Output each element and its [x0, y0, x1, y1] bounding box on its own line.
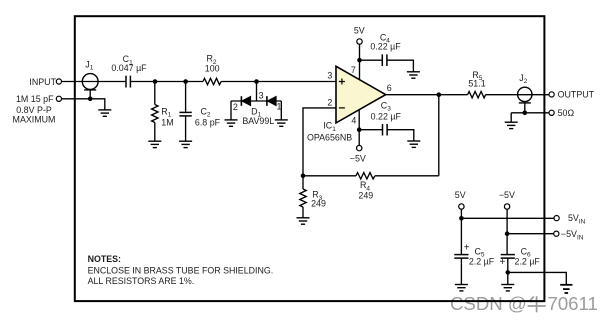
wire: node to D1 center [256, 82, 258, 102]
svg-text:5V: 5V [455, 190, 466, 200]
svg-text:OPA656NB: OPA656NB [307, 132, 352, 142]
node: 5V rail [459, 216, 464, 221]
resistor R4 249 (horizontal) [356, 173, 375, 179]
svg-text:51.1: 51.1 [468, 78, 485, 88]
wire: J1 shield stem [89, 90, 91, 99]
connector J1 [82, 74, 98, 90]
ground (R3) [297, 218, 310, 224]
op-amp - symbol [339, 107, 345, 109]
svg-text:3: 3 [259, 91, 264, 101]
wire: C3 to ground [387, 130, 414, 141]
wire: pin 2 from op-amp to inverting node [303, 108, 336, 176]
svg-text:ALL RESISTORS ARE 1%.: ALL RESISTORS ARE 1%. [88, 276, 195, 286]
svg-text:0.22 µF: 0.22 µF [371, 112, 402, 122]
resistor R3 249 (vertical) [302, 176, 304, 189]
svg-text:5V: 5V [354, 25, 365, 35]
ground (C4) [407, 72, 420, 78]
node: pin7/C4 [357, 58, 362, 63]
wire: pin 4 to -5V terminal [358, 109, 360, 145]
terminal 5V (supply input) [459, 204, 464, 209]
terminal 1M 15 pF [56, 96, 61, 101]
op-amp + symbol [339, 79, 345, 85]
wire: input shield line (1M 15pF terminal to ground) [62, 99, 105, 110]
terminal 50ohm [549, 110, 554, 115]
svg-text:+: + [499, 257, 505, 268]
watermark CSDN @牛70611 [450, 293, 598, 314]
node: pin4/C3 [357, 127, 362, 132]
svg-text:INPUT: INPUT [29, 77, 56, 87]
wire: 5V node to 5VIN terminal [461, 217, 554, 219]
svg-text:4: 4 [351, 116, 356, 126]
node: J1 shield junction [88, 97, 93, 102]
wire: J2 shield line to 50ohm terminal [511, 112, 549, 114]
svg-text:0.22 µF: 0.22 µF [370, 42, 401, 52]
ground (C2) [179, 141, 192, 147]
wire: D1 pin1 to ground [280, 101, 282, 120]
capacitor C1 0.047uF [126, 76, 130, 88]
svg-text:MAXIMUM: MAXIMUM [13, 114, 56, 124]
capacitor C4 0.22uF [382, 54, 387, 66]
ground (R1) [148, 141, 161, 147]
svg-text:−5V: −5V [499, 190, 515, 200]
terminal -5V (supply input) [504, 204, 509, 209]
node: J2 shield [523, 111, 528, 116]
node: C2 tap [183, 79, 188, 84]
capacitor C3 0.22uF [383, 124, 388, 136]
svg-text:BAV99L: BAV99L [242, 116, 274, 126]
ground (J2 shield) [505, 122, 518, 128]
enclosure box (brass tube boundary) [75, 16, 545, 301]
ground (C5) [455, 285, 468, 291]
wire: C1 to op-amp pin 3 [130, 81, 203, 83]
terminal -5VIN [554, 231, 559, 236]
svg-text:1M 15 pF: 1M 15 pF [16, 94, 54, 104]
svg-text:0.047 µF: 0.047 µF [111, 63, 147, 73]
ground (C3) [407, 141, 420, 147]
svg-text:249: 249 [358, 190, 373, 200]
node: D1 tap [254, 79, 259, 84]
svg-text:2: 2 [233, 102, 238, 112]
svg-text:OUTPUT: OUTPUT [558, 90, 595, 100]
terminal OUTPUT [549, 92, 554, 97]
wire: pin 7 to 5V terminal [359, 44, 361, 80]
node: C6 bottom [506, 270, 511, 275]
svg-text:249: 249 [311, 199, 326, 209]
terminal -5V (op-amp supply) [357, 145, 362, 150]
svg-text:2: 2 [327, 98, 332, 108]
wire: C4 to ground [387, 60, 414, 72]
svg-text:50Ω: 50Ω [558, 108, 575, 118]
diode D1a (cathode bar left) [240, 96, 242, 106]
notes block [88, 254, 274, 286]
ground (input shield) [98, 110, 111, 116]
wire: op-amp output pin 6 to R5 [386, 94, 468, 96]
node: -5V rail [505, 231, 510, 236]
wire: pin 4 node to C3 [359, 129, 382, 131]
op-amp U1 OPA656NB triangle [336, 66, 386, 123]
svg-text:2.2 µF: 2.2 µF [515, 256, 541, 266]
wire: pin 7 node to C4 [360, 59, 383, 61]
wire: R5 to J2 and OUTPUT terminal [486, 94, 549, 96]
diode D1b (cathode bar left) [266, 96, 268, 106]
ground (C6) [501, 285, 514, 291]
svg-text:2.2 µF: 2.2 µF [469, 256, 495, 266]
resistor R5 51.1 (horizontal) [468, 92, 486, 98]
svg-text:CSDN @: CSDN @ [450, 293, 527, 314]
ground (external, right of box) [560, 285, 572, 293]
resistor R2 100 (horizontal) [203, 78, 221, 84]
wire: INPUT terminal to C1 (main signal line, passes through J1) [62, 81, 127, 83]
wire: D1 branch horizontal [231, 100, 281, 102]
svg-text:ENCLOSE IN BRASS TUBE FOR SHIE: ENCLOSE IN BRASS TUBE FOR SHIELDING. [88, 265, 274, 275]
capacitor C2 6.8pF (vertical) [185, 82, 187, 113]
connector J2 [518, 87, 532, 101]
terminal 5V (op-amp supply) [357, 39, 362, 44]
svg-text:100: 100 [205, 63, 220, 73]
wire: C6 node to external ground [508, 272, 567, 284]
wire: 5V terminal down to C5 [460, 209, 462, 254]
terminal 5VIN [554, 216, 559, 221]
ground (D1 pin1) [275, 120, 288, 126]
svg-text:70611: 70611 [548, 293, 598, 314]
wire: feedback horizontal to R4 [375, 175, 439, 177]
svg-text:NOTES:: NOTES: [88, 254, 121, 264]
capacitor C6 2.2uF [501, 255, 515, 259]
node: inverting input [301, 174, 306, 179]
capacitor C5 2.2uF [454, 255, 468, 259]
wire: J2 shield to ground [510, 113, 512, 122]
svg-text:7: 7 [351, 65, 356, 75]
wire: -5V node to -5VIN terminal [507, 233, 554, 235]
ground (D1 pin2) [225, 120, 238, 126]
wire: feedback vertical from output node [438, 95, 440, 176]
svg-text:+: + [464, 243, 470, 254]
terminal INPUT [56, 79, 61, 84]
wire: -5V terminal down to C6 [506, 209, 508, 254]
svg-text:6.8 pF: 6.8 pF [195, 117, 221, 127]
wire: D1 pin2 to ground [230, 101, 232, 120]
resistor R1 1M (vertical) [154, 82, 156, 105]
svg-text:−5V: −5V [350, 154, 366, 164]
svg-text:1M: 1M [161, 117, 173, 127]
node: C1/R1 [153, 79, 158, 84]
svg-text:6: 6 [387, 83, 392, 93]
svg-text:3: 3 [327, 71, 332, 81]
svg-text:1: 1 [277, 101, 282, 111]
wire: R4 to inverting node [303, 175, 356, 177]
node: output/feedback [437, 92, 442, 97]
